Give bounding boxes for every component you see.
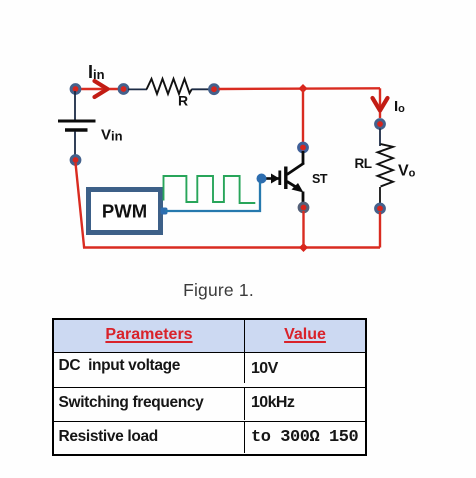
node resistor R right terminal — [210, 85, 219, 94]
wire top rail left red segment — [75, 88, 119, 90]
svg-text:Vin: Vin — [101, 127, 123, 144]
label R — [178, 93, 188, 109]
resistor RL — [378, 144, 394, 187]
wire left rail upper navy — [74, 91, 76, 120]
wire right rail red bottom — [379, 212, 381, 248]
wire transistor branch red bottom — [302, 211, 304, 248]
wire node to resistor RL — [379, 129, 381, 147]
caption Figure 1. — [0, 280, 437, 301]
parameters table — [52, 318, 367, 456]
wire resistor RL to bottom node — [379, 187, 381, 204]
wire resistor R to right node — [192, 88, 212, 90]
svg-text:R: R — [178, 93, 188, 109]
label Io — [394, 98, 405, 115]
wire bottom rail red — [83, 246, 380, 248]
node RL top terminal — [376, 120, 385, 129]
wire battery to lower-left node — [74, 132, 76, 161]
node transistor emitter — [299, 203, 308, 212]
svg-text:PWM: PWM — [102, 201, 147, 222]
wire PWM to gate blue — [165, 182, 260, 211]
svg-text:Vo: Vo — [398, 163, 416, 180]
junction top of transistor branch — [299, 84, 308, 93]
node transistor collector — [299, 143, 308, 152]
label Vo — [398, 163, 416, 180]
wire transistor branch red top — [302, 89, 304, 144]
svg-text:ST: ST — [312, 172, 328, 186]
label Iin — [88, 62, 105, 82]
PWM box — [89, 190, 161, 233]
resistor R — [147, 79, 192, 94]
svg-text:Io: Io — [394, 98, 405, 115]
node top-left junction — [71, 85, 80, 94]
junction bottom of transistor branch — [299, 243, 308, 252]
Iin current arrow — [95, 81, 108, 97]
Io current arrow — [373, 98, 388, 111]
wire right rail red top — [379, 88, 381, 118]
svg-text:Iin: Iin — [88, 62, 105, 82]
battery Vin — [58, 121, 96, 130]
node RL bottom terminal — [376, 204, 385, 213]
wire top rail right red segment — [219, 87, 381, 90]
node resistor R left terminal — [119, 85, 128, 94]
transistor ST — [265, 151, 304, 204]
node transistor gate — [257, 174, 267, 184]
PWM square wave signal — [164, 176, 256, 203]
wire node to resistor R — [128, 88, 147, 90]
node lower-left — [71, 156, 80, 165]
svg-text:RL: RL — [355, 156, 372, 171]
label RL — [355, 156, 372, 171]
wire left rail red down — [76, 163, 85, 248]
label ST — [312, 172, 328, 186]
label Vin — [101, 127, 123, 144]
PWM output terminal dot — [161, 208, 168, 215]
